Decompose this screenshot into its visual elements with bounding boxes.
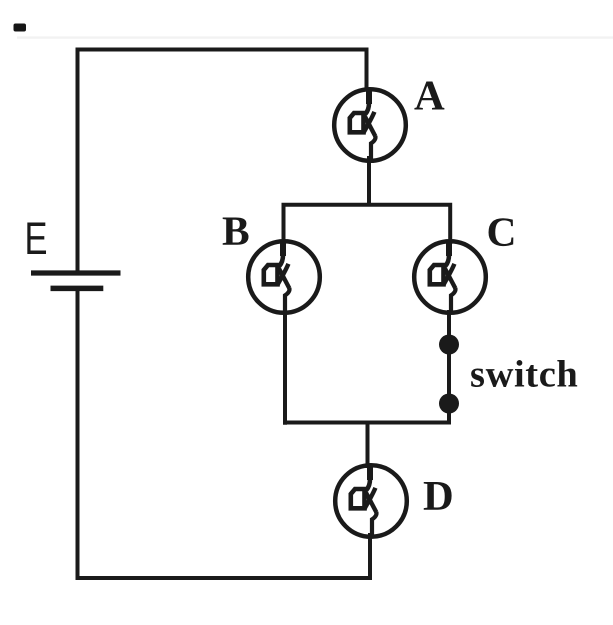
svg-text:A: A xyxy=(414,73,445,120)
lamp D xyxy=(335,464,407,539)
wire lamp D to bottom rail xyxy=(368,533,372,580)
wire parallel top rail with branch drops to B and C xyxy=(284,205,451,244)
svg-text:switch: switch xyxy=(470,354,578,396)
svg-text:D: D xyxy=(423,473,454,520)
wire between switch dots xyxy=(447,340,451,408)
svg-text:C: C xyxy=(487,209,517,255)
wire lamp C to switch xyxy=(447,310,451,340)
wire parallel bottom rail xyxy=(283,402,449,423)
wire lamp A to parallel junction xyxy=(367,156,371,207)
scan artifact dark dash top-left xyxy=(14,24,27,32)
svg-text:B: B xyxy=(222,208,250,254)
switch terminal dot lower xyxy=(439,394,459,414)
wire parallel bottom rail to lamp D xyxy=(366,421,370,469)
wire left rail upper (top rail to battery) xyxy=(76,48,80,271)
switch terminal dot upper xyxy=(439,335,459,355)
lamp C xyxy=(414,240,486,315)
wire top rail from left rail to lamp A xyxy=(76,50,367,92)
wire left rail lower (battery to bottom rail) xyxy=(76,291,80,580)
lamp B xyxy=(248,240,320,315)
lamp A xyxy=(334,88,406,163)
svg-text:E: E xyxy=(25,213,48,264)
scan artifact faint line xyxy=(17,36,613,38)
wire lamp B to bottom rail xyxy=(283,310,287,425)
battery E short plate xyxy=(51,286,104,292)
wire bottom rail xyxy=(76,576,371,580)
battery E long plate xyxy=(31,270,121,275)
